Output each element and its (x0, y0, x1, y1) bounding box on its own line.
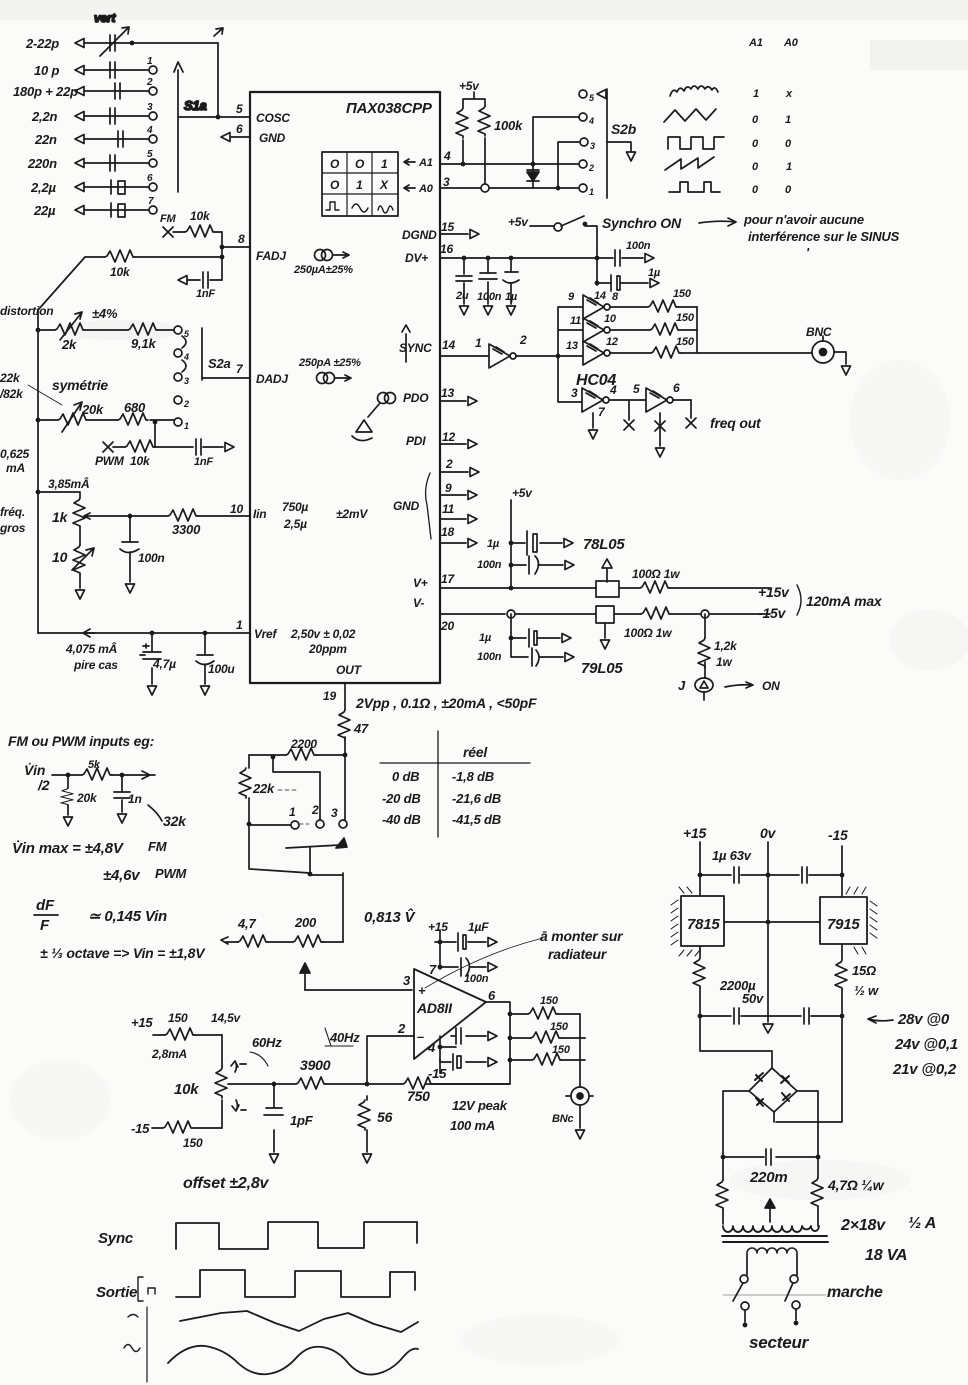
svg-text:20k: 20k (81, 402, 104, 417)
svg-text:0 dB: 0 dB (392, 769, 419, 784)
svg-text:100k: 100k (494, 118, 523, 133)
svg-text:4: 4 (443, 149, 451, 163)
svg-text:3: 3 (184, 376, 189, 386)
svg-text:7915: 7915 (827, 916, 860, 933)
svg-text:marche: marche (827, 1284, 883, 1301)
svg-text:60Hz: 60Hz (252, 1035, 282, 1050)
svg-text:180p + 22p: 180p + 22p (13, 84, 78, 99)
svg-text:-15: -15 (131, 1121, 150, 1136)
svg-text:2200: 2200 (290, 737, 317, 751)
svg-text:3: 3 (443, 175, 450, 189)
svg-text:± ⅓ octave => Vin = ±1,8V: ± ⅓ octave => Vin = ±1,8V (40, 945, 206, 961)
svg-text:2: 2 (445, 457, 453, 471)
svg-text:X: X (379, 178, 389, 192)
svg-text:1: 1 (289, 805, 296, 819)
svg-text:11: 11 (570, 315, 581, 327)
svg-text:GND: GND (259, 131, 286, 145)
svg-text:dF: dF (36, 897, 55, 914)
svg-text:100Ω 1w: 100Ω 1w (632, 567, 680, 581)
svg-text:V-: V- (413, 596, 424, 610)
svg-text:BNc: BNc (552, 1113, 573, 1125)
svg-text:symétrie: symétrie (52, 377, 108, 393)
svg-text:V̇in: V̇in (24, 762, 45, 778)
svg-text:pire cas: pire cas (73, 658, 118, 672)
svg-text:2: 2 (397, 1021, 406, 1036)
svg-text:≃ 0,145 Vin: ≃ 0,145 Vin (88, 908, 167, 925)
svg-text:-1,8 dB: -1,8 dB (452, 769, 494, 784)
svg-text:10: 10 (230, 502, 243, 516)
svg-text:Sortie: Sortie (96, 1284, 137, 1301)
svg-text:9: 9 (445, 481, 452, 495)
svg-text:-20 dB: -20 dB (382, 791, 421, 806)
svg-text:radiateur: radiateur (548, 946, 608, 962)
svg-text:6: 6 (236, 122, 243, 136)
svg-text:0,813 V̂: 0,813 V̂ (364, 907, 417, 926)
svg-text:+5v: +5v (508, 215, 529, 229)
svg-text:4,7: 4,7 (237, 916, 256, 931)
svg-text:750µ: 750µ (282, 500, 308, 514)
svg-text:150: 150 (676, 336, 695, 348)
svg-text:10k: 10k (190, 209, 211, 223)
svg-text:9,1k: 9,1k (131, 336, 156, 351)
svg-text:DGND: DGND (402, 228, 437, 242)
svg-text:1: 1 (184, 421, 189, 431)
svg-text:2u: 2u (455, 290, 469, 302)
svg-text:-15: -15 (828, 827, 848, 843)
svg-text:1: 1 (381, 157, 388, 171)
svg-text:fréq.: fréq. (0, 505, 25, 519)
svg-text:1pF: 1pF (290, 1113, 314, 1128)
svg-text:½ A: ½ A (908, 1215, 936, 1232)
svg-text:1µ: 1µ (505, 291, 518, 303)
svg-text:10 p: 10 p (34, 63, 59, 78)
svg-text:mA: mA (6, 461, 25, 475)
svg-text:pour n'avoir aucune: pour n'avoir aucune (743, 212, 864, 227)
svg-text:O: O (330, 178, 340, 192)
svg-text:1n: 1n (128, 792, 142, 806)
svg-text:0v: 0v (760, 825, 777, 841)
svg-text:100n: 100n (626, 240, 651, 252)
svg-text:±4%: ±4% (92, 306, 118, 321)
svg-text:200: 200 (294, 915, 317, 930)
svg-text:13: 13 (441, 386, 454, 400)
svg-text:100n: 100n (138, 551, 165, 565)
svg-text:FM ou PWM inputs eg:: FM ou PWM inputs eg: (8, 733, 154, 749)
svg-text:3: 3 (331, 806, 338, 820)
svg-text:2: 2 (183, 399, 189, 409)
svg-text:14,5v: 14,5v (211, 1011, 242, 1025)
svg-text:1: 1 (236, 618, 243, 632)
svg-text:12V peak: 12V peak (452, 1098, 508, 1113)
svg-text:4,075 mÂ: 4,075 mÂ (65, 641, 117, 656)
svg-text:100 mA: 100 mA (450, 1118, 495, 1133)
svg-text:4: 4 (183, 352, 189, 362)
svg-text:±4,6v: ±4,6v (103, 867, 141, 884)
svg-text:1: 1 (786, 161, 792, 173)
svg-text:150: 150 (673, 288, 692, 300)
svg-text:2,5µ: 2,5µ (283, 517, 307, 531)
svg-text:16: 16 (440, 242, 453, 256)
svg-text:15Ω: 15Ω (852, 963, 876, 978)
svg-text:12: 12 (606, 336, 618, 348)
svg-text:2,2n: 2,2n (31, 109, 57, 124)
svg-text:100n: 100n (477, 291, 502, 303)
svg-text:distortion: distortion (0, 304, 53, 318)
svg-text:ON: ON (762, 679, 780, 693)
svg-text:220m: 220m (749, 1169, 788, 1186)
svg-text:A0: A0 (418, 183, 434, 195)
svg-text:10: 10 (52, 549, 68, 565)
svg-text:150: 150 (540, 995, 559, 1007)
svg-text:12: 12 (442, 430, 455, 444)
svg-text:1nF: 1nF (194, 456, 213, 468)
svg-text:-15: -15 (428, 1066, 447, 1081)
svg-text:/82k: /82k (0, 387, 24, 401)
svg-text:2-22p: 2-22p (25, 36, 59, 51)
svg-text:17: 17 (441, 572, 455, 586)
svg-text:1µ: 1µ (479, 632, 492, 644)
svg-text:10k: 10k (174, 1081, 199, 1098)
svg-text:11: 11 (442, 502, 455, 516)
svg-text:56: 56 (377, 1109, 393, 1125)
svg-text:+5v: +5v (459, 79, 480, 93)
svg-text:5: 5 (236, 102, 243, 116)
svg-text:1µF: 1µF (468, 920, 489, 934)
svg-text:S2b: S2b (611, 121, 637, 137)
svg-text:22k: 22k (0, 371, 21, 385)
svg-text:18 VA: 18 VA (865, 1247, 907, 1264)
svg-text:150: 150 (552, 1044, 571, 1056)
svg-text:PWM: PWM (95, 454, 125, 468)
svg-text:freq out: freq out (710, 415, 762, 431)
svg-text:7: 7 (148, 196, 154, 207)
svg-text:5: 5 (633, 382, 640, 396)
svg-text:22n: 22n (34, 132, 57, 147)
svg-text:3900: 3900 (300, 1057, 331, 1073)
svg-text:S1a: S1a (184, 98, 207, 113)
svg-text:150: 150 (168, 1011, 188, 1025)
svg-text:21v @0,2: 21v @0,2 (892, 1061, 957, 1078)
svg-text:A1: A1 (418, 157, 433, 169)
svg-text:FM: FM (160, 213, 177, 225)
svg-text:+15: +15 (428, 920, 448, 934)
svg-text:3: 3 (147, 102, 153, 113)
svg-text:1: 1 (785, 114, 791, 126)
svg-text:-15v: -15v (758, 605, 787, 621)
svg-text:150: 150 (676, 312, 695, 324)
svg-text:3300: 3300 (172, 522, 201, 537)
svg-text:1,2k: 1,2k (714, 639, 738, 653)
svg-text:2Vpp , 0.1Ω , ±20mA , <50pF: 2Vpp , 0.1Ω , ±20mA , <50pF (355, 695, 537, 711)
svg-text:PWM: PWM (155, 866, 188, 881)
svg-text:22µ: 22µ (33, 203, 56, 218)
svg-text:+: + (418, 983, 426, 998)
svg-text:100n: 100n (477, 651, 502, 663)
svg-text:22k: 22k (252, 781, 275, 796)
svg-text:/2: /2 (37, 777, 50, 793)
svg-text:BNC: BNC (806, 325, 832, 339)
svg-text:3: 3 (571, 386, 578, 400)
svg-text:Iin: Iin (253, 507, 266, 521)
svg-text:PDI: PDI (406, 434, 426, 448)
svg-text:150: 150 (550, 1021, 569, 1033)
svg-text:A1: A1 (748, 37, 763, 49)
svg-text:7815: 7815 (687, 916, 720, 933)
svg-text:½ w: ½ w (854, 983, 879, 998)
svg-text:4: 4 (427, 1040, 436, 1055)
svg-text:1w: 1w (716, 655, 732, 669)
svg-text:2: 2 (146, 77, 153, 88)
svg-text:100n: 100n (477, 559, 502, 571)
svg-text:1: 1 (589, 187, 594, 197)
svg-text:–: – (417, 1029, 424, 1044)
svg-text:47: 47 (353, 721, 369, 736)
svg-text:100n: 100n (464, 973, 489, 985)
svg-text:vert: vert (94, 11, 116, 25)
svg-text:V̇in max = ±4,8V: V̇in max = ±4,8V (12, 840, 125, 857)
svg-text:10: 10 (604, 313, 617, 325)
svg-text:79L05: 79L05 (581, 660, 623, 677)
svg-text:100Ω 1w: 100Ω 1w (624, 626, 672, 640)
svg-text:2,50v ± 0,02: 2,50v ± 0,02 (290, 627, 356, 641)
svg-text:13: 13 (566, 340, 578, 352)
svg-text:7: 7 (429, 962, 437, 977)
svg-text:ā monter sur: ā monter sur (540, 928, 624, 944)
svg-text:24v @0,1: 24v @0,1 (894, 1036, 958, 1053)
svg-text:Vref: Vref (254, 627, 278, 641)
svg-text:20k: 20k (76, 791, 98, 805)
svg-text:1µ: 1µ (487, 538, 500, 550)
svg-text:1µ: 1µ (648, 267, 661, 279)
svg-text:2: 2 (519, 333, 527, 347)
svg-text:40Hz: 40Hz (329, 1030, 360, 1045)
svg-text:18: 18 (441, 525, 454, 539)
svg-text:-41,5 dB: -41,5 dB (452, 812, 501, 827)
svg-text:V+: V+ (413, 576, 428, 590)
svg-text:4,7Ω ¼w: 4,7Ω ¼w (827, 1177, 885, 1193)
svg-text:250µA±25%: 250µA±25% (293, 264, 353, 276)
svg-text:réel: réel (463, 744, 488, 760)
svg-text:8: 8 (238, 232, 245, 246)
svg-text:OUT: OUT (336, 663, 363, 677)
svg-text:50v: 50v (742, 991, 764, 1006)
svg-text:1: 1 (356, 178, 363, 192)
svg-text:FM: FM (148, 839, 168, 854)
svg-text:2: 2 (311, 803, 319, 817)
svg-text:1k: 1k (52, 509, 69, 525)
svg-text:O: O (330, 157, 340, 171)
svg-text:6: 6 (147, 173, 153, 184)
svg-text:150: 150 (183, 1136, 203, 1150)
svg-text:20ppm: 20ppm (308, 642, 347, 656)
svg-text:gros: gros (0, 521, 26, 535)
svg-text:28v @0: 28v @0 (897, 1011, 950, 1028)
svg-text:2: 2 (588, 163, 594, 173)
svg-text:2×18v: 2×18v (840, 1217, 886, 1234)
svg-text:3,85mÂ: 3,85mÂ (48, 476, 90, 491)
svg-text:6: 6 (488, 988, 496, 1003)
svg-text:750: 750 (407, 1088, 430, 1104)
svg-text:10k: 10k (110, 265, 131, 279)
svg-text:20: 20 (440, 619, 454, 633)
svg-text:secteur: secteur (749, 1333, 810, 1352)
svg-text:DV+: DV+ (405, 251, 428, 265)
svg-text:DADJ: DADJ (256, 372, 288, 386)
svg-text:4: 4 (146, 125, 153, 136)
svg-text:-21,6 dB: -21,6 dB (452, 791, 501, 806)
svg-text:0,625: 0,625 (0, 447, 30, 461)
svg-text:ПAX038CPP: ПAX038CPP (346, 100, 433, 117)
svg-text:+5v: +5v (512, 486, 533, 500)
svg-text:19: 19 (323, 689, 336, 703)
svg-text:PDO: PDO (403, 391, 429, 405)
svg-text:15: 15 (441, 220, 454, 234)
svg-text:6: 6 (673, 381, 680, 395)
svg-text:+15v: +15v (758, 584, 790, 600)
svg-text:GND: GND (393, 499, 420, 513)
svg-text:x: x (785, 88, 793, 100)
svg-text:4,7µ: 4,7µ (152, 657, 176, 671)
svg-text:120mA max: 120mA max (806, 593, 883, 609)
svg-text:±2mV: ±2mV (336, 507, 368, 521)
svg-text:interférence sur le SINUS: interférence sur le SINUS (748, 229, 900, 244)
svg-text:1nF: 1nF (196, 288, 215, 300)
svg-text:-40 dB: -40 dB (382, 812, 421, 827)
svg-text:220n: 220n (27, 156, 57, 171)
svg-text:1: 1 (147, 56, 153, 67)
svg-text:AD8II: AD8II (416, 1000, 453, 1016)
svg-text:32k: 32k (163, 813, 187, 829)
svg-text:14: 14 (594, 290, 606, 302)
svg-text:COSC: COSC (256, 111, 290, 125)
svg-text:4: 4 (588, 116, 594, 126)
svg-text:A0: A0 (783, 37, 799, 49)
svg-text:Synchro ON: Synchro ON (602, 215, 682, 231)
svg-text:Sync: Sync (98, 1230, 134, 1247)
svg-text:2,2µ: 2,2µ (30, 180, 56, 195)
svg-text:3: 3 (403, 973, 411, 988)
svg-text:2,8mA: 2,8mA (151, 1047, 187, 1061)
svg-text:FADJ: FADJ (256, 249, 286, 263)
svg-text:250pA ±25%: 250pA ±25% (298, 357, 361, 369)
svg-text:1: 1 (753, 88, 759, 100)
svg-text:3: 3 (590, 141, 595, 151)
svg-text:5: 5 (147, 149, 153, 160)
svg-text:SYNC: SYNC (399, 341, 432, 355)
svg-text:100u: 100u (208, 662, 235, 676)
svg-text:+15: +15 (683, 825, 707, 841)
svg-text:+15: +15 (131, 1015, 153, 1030)
svg-text:4: 4 (609, 383, 617, 397)
svg-text:offset ±2,8v: offset ±2,8v (183, 1175, 270, 1192)
svg-text:J: J (678, 678, 686, 693)
svg-text:2k: 2k (61, 337, 77, 352)
svg-text:O: O (355, 157, 365, 171)
svg-text:78L05: 78L05 (583, 536, 625, 553)
svg-text:10k: 10k (130, 454, 151, 468)
svg-text:1: 1 (475, 336, 482, 350)
svg-text:F: F (40, 917, 50, 934)
svg-text:5k: 5k (88, 759, 101, 771)
svg-text:680: 680 (124, 400, 146, 415)
svg-text:1µ 63v: 1µ 63v (712, 848, 752, 863)
svg-text:S2a: S2a (208, 356, 231, 371)
svg-text:14: 14 (442, 338, 455, 352)
